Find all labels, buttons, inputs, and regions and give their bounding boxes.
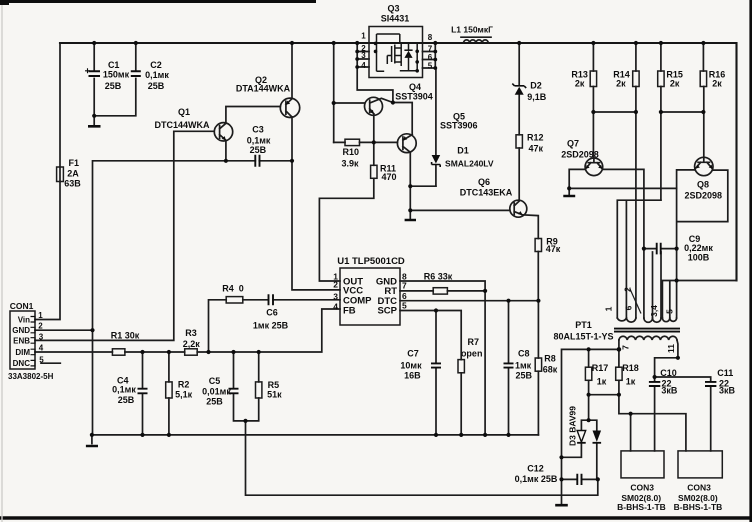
- svg-text:11: 11: [666, 344, 676, 353]
- svg-text:C5: C5: [209, 376, 221, 386]
- svg-text:C8: C8: [518, 349, 530, 359]
- svg-text:47к: 47к: [529, 143, 544, 153]
- svg-text:68к: 68к: [543, 364, 558, 374]
- svg-text:1мк 25В: 1мк 25В: [253, 320, 289, 330]
- svg-text:4: 4: [333, 302, 338, 312]
- svg-text:2A: 2A: [67, 168, 79, 178]
- svg-text:5,1к: 5,1к: [175, 389, 193, 399]
- svg-text:D3 BAV99: D3 BAV99: [568, 406, 578, 446]
- svg-text:3.9к: 3.9к: [341, 158, 359, 168]
- svg-text:3кВ: 3кВ: [719, 386, 736, 396]
- svg-text:PT1: PT1: [575, 320, 592, 330]
- svg-text:C3: C3: [252, 124, 264, 134]
- svg-text:R3: R3: [185, 328, 197, 338]
- svg-text:7: 7: [402, 281, 407, 291]
- svg-text:Q7: Q7: [567, 138, 579, 148]
- svg-text:25В: 25В: [516, 370, 533, 380]
- svg-text:25В: 25В: [105, 81, 122, 91]
- svg-text:63В: 63В: [64, 178, 81, 188]
- svg-text:5: 5: [39, 356, 44, 365]
- svg-text:2,2к: 2,2к: [183, 339, 201, 349]
- svg-text:R7: R7: [468, 337, 480, 347]
- svg-text:SCP: SCP: [377, 306, 397, 317]
- svg-text:3: 3: [333, 292, 338, 302]
- svg-text:R12: R12: [527, 132, 544, 142]
- svg-text:DTA144WKA: DTA144WKA: [236, 83, 291, 93]
- svg-text:51к: 51к: [267, 390, 282, 400]
- svg-text:0,01мк: 0,01мк: [202, 387, 231, 397]
- svg-text:CON1: CON1: [10, 301, 34, 311]
- svg-text:GND: GND: [12, 326, 30, 335]
- svg-text:SI4431: SI4431: [381, 13, 410, 23]
- svg-text:2к: 2к: [616, 78, 626, 88]
- svg-text:0,1мк: 0,1мк: [112, 384, 136, 394]
- svg-text:0,1мк: 0,1мк: [145, 70, 169, 80]
- svg-text:2SD2098: 2SD2098: [685, 190, 723, 200]
- svg-text:Vin: Vin: [18, 316, 30, 325]
- svg-text:R2: R2: [178, 379, 190, 389]
- svg-text:3: 3: [39, 333, 44, 342]
- svg-text:1мк: 1мк: [515, 361, 532, 371]
- svg-text:5: 5: [665, 309, 675, 314]
- svg-text:R18: R18: [622, 363, 639, 373]
- svg-text:470: 470: [381, 172, 396, 182]
- svg-text:B-BHS-1-TB: B-BHS-1-TB: [617, 502, 666, 512]
- svg-text:D1: D1: [457, 145, 469, 155]
- svg-text:R5: R5: [268, 380, 280, 390]
- svg-text:10мк: 10мк: [400, 361, 422, 371]
- svg-text:SST3904: SST3904: [395, 91, 433, 101]
- svg-text:80AL15T-1-YS: 80AL15T-1-YS: [553, 332, 613, 342]
- svg-text:1к: 1к: [597, 377, 607, 387]
- svg-text:3кВ: 3кВ: [661, 386, 678, 396]
- svg-text:C1: C1: [108, 60, 120, 70]
- svg-text:open: open: [461, 349, 483, 359]
- svg-text:2SD2098: 2SD2098: [561, 149, 599, 159]
- svg-text:C10: C10: [660, 368, 677, 378]
- svg-text:C2: C2: [150, 60, 162, 70]
- svg-text:DTC143EKA: DTC143EKA: [460, 188, 513, 198]
- svg-text:5: 5: [402, 301, 407, 311]
- svg-text:25В: 25В: [206, 397, 223, 407]
- svg-text:16В: 16В: [404, 370, 421, 380]
- svg-text:2к: 2к: [575, 78, 585, 88]
- svg-text:2: 2: [623, 287, 633, 292]
- svg-text:Q1: Q1: [178, 107, 190, 117]
- svg-text:DNC: DNC: [13, 359, 31, 368]
- svg-text:0,1мк 25В: 0,1мк 25В: [515, 474, 558, 484]
- svg-text:2: 2: [38, 321, 43, 330]
- svg-text:C11: C11: [717, 368, 733, 378]
- svg-text:CON3: CON3: [687, 483, 711, 493]
- svg-text:8: 8: [428, 33, 433, 42]
- svg-text:CON3: CON3: [630, 483, 654, 493]
- svg-text:F1: F1: [69, 158, 80, 168]
- svg-text:33A3802-5H: 33A3802-5H: [8, 372, 54, 381]
- svg-text:Q4: Q4: [409, 82, 421, 92]
- svg-text:0,22мк: 0,22мк: [684, 243, 713, 253]
- svg-text:47к: 47к: [546, 244, 561, 254]
- svg-text:SMAL240LV: SMAL240LV: [445, 158, 494, 168]
- svg-text:DTC144WKA: DTC144WKA: [154, 120, 210, 130]
- svg-text:R4 0: R4 0: [222, 284, 244, 294]
- svg-text:1: 1: [38, 311, 43, 320]
- svg-text:6: 6: [624, 305, 634, 310]
- svg-text:FB: FB: [343, 306, 356, 317]
- svg-text:6: 6: [402, 291, 407, 301]
- svg-text:C6: C6: [266, 307, 278, 317]
- svg-text:C12: C12: [527, 463, 544, 473]
- svg-text:4: 4: [361, 61, 366, 70]
- svg-text:R8: R8: [544, 353, 556, 363]
- svg-text:5: 5: [428, 61, 433, 70]
- svg-text:2: 2: [333, 280, 338, 290]
- svg-text:R10: R10: [343, 147, 360, 157]
- svg-text:3,4: 3,4: [649, 305, 659, 317]
- svg-text:25В: 25В: [250, 145, 267, 155]
- svg-text:D2: D2: [530, 80, 542, 90]
- svg-text:R17: R17: [592, 363, 609, 373]
- svg-text:1: 1: [361, 32, 366, 41]
- svg-text:25В: 25В: [118, 395, 135, 405]
- svg-text:4: 4: [39, 343, 44, 352]
- svg-text:3: 3: [361, 51, 366, 60]
- svg-text:U1 TLP5001CD: U1 TLP5001CD: [337, 256, 405, 267]
- svg-text:1к: 1к: [626, 377, 636, 387]
- svg-text:9,1В: 9,1В: [527, 92, 547, 102]
- svg-text:100В: 100В: [688, 253, 710, 263]
- svg-text:B-BHS-1-TB: B-BHS-1-TB: [674, 502, 723, 512]
- svg-text:7: 7: [621, 345, 631, 350]
- svg-text:Q8: Q8: [697, 180, 709, 190]
- svg-text:C7: C7: [407, 349, 419, 359]
- svg-text:SST3906: SST3906: [440, 120, 478, 130]
- svg-text:150мк: 150мк: [103, 69, 130, 79]
- svg-text:1: 1: [604, 306, 614, 311]
- svg-text:R1 30к: R1 30к: [111, 330, 140, 340]
- svg-text:L1 150мкГ: L1 150мкГ: [451, 24, 493, 34]
- svg-text:2к: 2к: [712, 78, 722, 88]
- svg-text:2к: 2к: [670, 78, 680, 88]
- svg-text:R6 33к: R6 33к: [424, 272, 453, 282]
- svg-text:ENB: ENB: [13, 336, 30, 345]
- svg-text:25В: 25В: [148, 81, 165, 91]
- svg-text:Q6: Q6: [478, 177, 490, 187]
- svg-text:DIM: DIM: [15, 348, 30, 357]
- svg-text:Q3: Q3: [387, 3, 399, 13]
